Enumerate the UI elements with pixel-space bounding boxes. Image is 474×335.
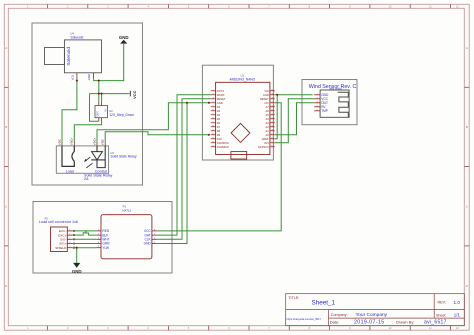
svg-text:VDC: VDC [101,139,105,145]
svg-text:A7: A7 [266,105,270,109]
svg-text:A: A [5,46,7,50]
wire: arduino GND to wind sensor GND [275,94,313,96]
wire: SIG+ to GRN [72,243,96,245]
P1 left pin YLW [96,246,109,250]
P2 pin 2 EXC+ [58,233,72,237]
svg-text:D2: D2 [217,105,221,109]
P1 left pin GRN [96,242,110,246]
solenoid pin 2 GND [87,73,94,80]
svg-text:C: C [466,204,468,208]
U1 pin 12 D9 [211,133,221,137]
svg-text:OUT: OUT [96,111,100,117]
P2 pin 4 SIG+ [59,242,72,246]
svg-text:GND: GND [217,101,223,105]
svg-text:D0/RX: D0/RX [217,93,225,97]
node P2 pin 5 [73,247,75,249]
U1 pin 17 3V3 [264,141,275,145]
U5 pin 4 RV [314,105,326,109]
svg-text:D13/SCK: D13/SCK [258,145,269,149]
wire: GND rail branch down to HX711 GND [157,103,187,244]
svg-text:D1/TX: D1/TX [217,89,225,93]
svg-text:GND: GND [263,93,269,97]
svg-text:Sheet_1: Sheet_1 [312,300,336,307]
svg-text:3V3: 3V3 [264,141,269,145]
svg-text:2A: 2A [84,177,89,181]
sensor U5 Wind Sensor Rev. C [309,84,357,117]
svg-text:TITLE:: TITLE: [288,296,299,300]
module P1 HX711 [101,204,152,258]
wire: EXC+ crossover to RED [72,231,96,235]
U1 pin 13 D10 [211,137,222,141]
svg-text:Drawn By:: Drawn By: [396,319,414,324]
svg-text:VDC+: VDC+ [70,137,74,145]
svg-text:wind sensor: wind sensor [329,88,341,91]
svg-text:D10: D10 [217,137,222,141]
connector P2 Load cell connector 1x6 [39,216,78,251]
solenoid U4 [45,32,102,72]
U1 pin 22 A3 [266,121,275,125]
svg-text:D6: D6 [217,121,221,125]
wire: loop to step-down bottom pin [90,94,99,122]
section box: load cell / HX711 block [33,202,172,274]
U1 pin 6 D3 [211,109,221,113]
svg-text:GND: GND [87,74,91,80]
U5 pin 5 TMP [314,109,328,113]
wire: solenoid GND pin to ground symbol [94,44,124,81]
U1 pin 15 D12/MISO [211,145,229,149]
svg-text:A2: A2 [266,125,270,129]
svg-text:1/1: 1/1 [454,312,461,317]
P1 left pin RED [96,229,110,233]
svg-text:RESET: RESET [217,97,226,101]
svg-text:D4: D4 [217,113,221,117]
solenoid pin 1 V(1) [70,73,77,80]
svg-text:YLW: YLW [102,246,109,250]
svg-text:TMP: TMP [321,109,328,113]
U2 pins [99,102,102,122]
svg-text:D12/MISO: D12/MISO [217,145,229,149]
P1 left pin WHT [96,238,109,242]
svg-text:D8: D8 [217,129,221,133]
wire: GND branch to AREF [275,95,277,139]
wire: arduino D0/RX down to HX711 DAT [157,95,210,235]
svg-text:D5: D5 [217,117,221,121]
svg-text:GND: GND [119,35,129,40]
svg-text:GND: GND [144,242,152,246]
P1 left pin BLK [96,233,109,237]
wire: arduino 3V3 to wind sensor VCC [275,99,314,143]
U1 pin 8 D5 [211,117,221,121]
U1 pin 19 A0 [266,133,275,137]
U1 pin 23 A4 [266,117,275,121]
svg-text:Solenoid: Solenoid [71,36,84,40]
svg-text:Solenoid: Solenoid [66,47,72,66]
svg-text:Date:: Date: [330,319,340,324]
op-amp substitute — microcontroller U1 ARDUINO_NANO [216,73,270,159]
power flag VCC [130,90,137,98]
ground (bottom, shield) [72,263,82,274]
P2 pin 3 SIG- [60,238,72,242]
wire: SHIELD to YLW [72,247,96,249]
svg-text:C: C [5,204,7,208]
wire: arduino A0 to wind sensor OUT [275,103,314,135]
svg-text:Solid State Relay: Solid State Relay [111,155,137,159]
svg-text:https://easyeda.com/avi_6517: https://easyeda.com/avi_6517 [287,317,322,321]
svg-text:D: D [466,284,468,288]
U1 pin 21 A2 [266,125,275,129]
svg-text:VDC+: VDC+ [92,137,96,145]
junction dot GND/sensor rail [276,94,278,96]
junction dots solenoid/step-down rails [76,80,78,82]
P2 pin 1 EXC- [59,229,72,233]
P1 right pin VCC [144,229,157,233]
svg-text:VDC: VDC [57,139,61,145]
U1 pin 24 A5 [266,113,275,117]
svg-text:Your Company: Your Company [356,312,388,318]
wire: EXC- crossover to BLK [72,231,96,235]
U1 pin 18 AREF [262,137,275,141]
wire: VCC rail to VCC flag [90,93,130,95]
U1 pin 4 GND [211,101,223,105]
wire: drop to step-down pin VIN [101,94,103,102]
U1 pin 3 RESET [211,97,226,101]
svg-text:ARDUINO_NANO: ARDUINO_NANO [229,78,255,82]
node P2 pin 2 [73,234,75,236]
svg-text:D9: D9 [217,133,221,137]
node P2 pin 1 [73,230,75,232]
U1 pin 14 D11/MOSI [211,141,229,145]
U5 pin 1 GND [314,93,329,97]
svg-text:VIN: VIN [264,89,268,93]
U1 pin 28 RESET [260,97,275,101]
svg-text:A6: A6 [266,109,270,113]
svg-text:VI: VI [103,109,107,112]
section box: solenoid + relay power block [32,23,143,185]
svg-text:V(1): V(1) [70,75,74,80]
svg-text:A4: A4 [266,117,270,121]
svg-text:A5: A5 [266,113,270,117]
U1 pin 9 D6 [211,121,221,125]
svg-text:Load cell connector 1x6: Load cell connector 1x6 [39,220,78,224]
regulator U2 12V_Step_Down [95,106,134,118]
svg-text:2019-07-15: 2019-07-15 [354,319,385,325]
svg-text:VCC: VCC [132,90,137,98]
wire: SHIELD branch to ground [76,248,78,263]
U1 pin 10 D7 [211,125,221,129]
wire: relay control- to arduino D9 [105,132,209,141]
svg-text:REV:: REV: [438,301,446,305]
wire: arduino +5V down to HX711 VCC [157,103,281,231]
svg-text:12V_Step_Down: 12V_Step_Down [109,113,134,117]
wire: step-down output to relay control pin 2 [74,121,101,141]
node P2 pin 4 [73,242,75,244]
svg-text:avi_6517: avi_6517 [424,320,447,326]
svg-text:AREF: AREF [262,137,269,141]
U1 pin 5 D2 [211,105,221,109]
svg-text:D7: D7 [217,125,221,129]
U1 pin 1 D1/TX [211,89,225,93]
wire: relay control+ to arduino GND rail [97,103,211,141]
svg-text:A0: A0 [266,133,270,137]
svg-text:A1: A1 [266,129,270,133]
U1 pin 11 D8 [211,129,221,133]
P1 right pin CLK [144,238,157,242]
svg-text:1.0: 1.0 [454,300,461,305]
svg-text:A3: A3 [266,121,270,125]
svg-text:D: D [5,284,7,288]
U1 pin 25 A6 [266,109,275,113]
U1 pin 20 A1 [266,129,275,133]
wire: GND rail drop to step-down input [98,81,100,102]
U1 pin 7 D4 [211,113,221,117]
svg-text:Company:: Company: [331,313,348,317]
svg-text:HX711: HX711 [122,209,131,213]
title block [286,294,465,326]
node P2 pin 3 [73,238,75,240]
junction dots on GND / D9 rails [186,102,188,104]
svg-text:D11/MOSI: D11/MOSI [217,141,229,145]
svg-text:RESET: RESET [260,97,269,101]
U1 pin 27 +5V [264,101,275,105]
svg-text:B: B [5,125,7,129]
U5 pin 3 OUT [314,101,328,105]
U1 pin 2 D0/RX [211,93,225,97]
svg-text:Load: Load [66,170,74,174]
P1 right pin GND [144,242,158,246]
P1 right pin DAT [145,233,158,237]
section box: wind sensor block [302,80,357,125]
ground (top, solenoid return) [119,35,129,44]
U1 pin 16 D13/SCK [258,145,275,149]
P2 pin 5 SHIELD [55,246,72,250]
svg-text:SHIELD: SHIELD [55,246,67,250]
svg-text:B: B [466,125,468,129]
svg-text:+5V: +5V [264,101,269,105]
solid state relay U3 [56,146,137,181]
U1 pin 29 GND [263,93,275,97]
svg-text:Sheet:: Sheet: [436,313,446,317]
section box: arduino nano block [202,65,273,160]
U3 pins VDC / VDC+ / VDC+ / VDC [57,137,105,146]
U5 pin 2 VCC [314,97,328,101]
svg-text:GND: GND [72,269,82,274]
svg-text:A: A [466,46,468,50]
U1 pin 26 A7 [266,105,275,109]
wire: SIG- to WHT [72,238,96,240]
junction dot shield/ground [76,247,78,249]
wire: solenoid V(1) to relay load pin 1 [62,78,77,141]
svg-text:D3: D3 [217,109,221,113]
U1 pin 30 VIN [264,89,274,93]
wire: arduino RESET down to HX711 CLK [157,99,210,240]
